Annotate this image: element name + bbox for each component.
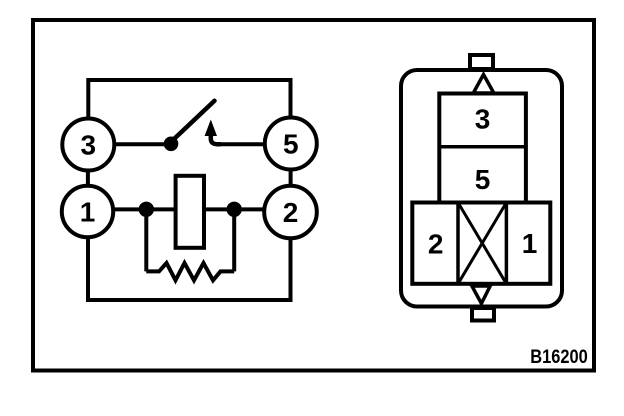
divider between cavity 3 and 5 xyxy=(439,145,526,149)
junction dot: right node on coil wire xyxy=(227,202,242,217)
terminal circle 2 xyxy=(264,186,317,239)
connector mounting tab top xyxy=(470,55,493,69)
switch blade (open contact) xyxy=(174,101,215,140)
junction dot: left node on coil wire xyxy=(139,202,154,217)
keyway left divider xyxy=(456,203,460,284)
svg-text:5: 5 xyxy=(475,164,491,195)
keyway right divider xyxy=(505,203,509,284)
wire: switch arrow to terminal 5 xyxy=(219,142,265,146)
resistor (zigzag) xyxy=(146,263,234,280)
terminal circle 3 xyxy=(62,119,114,171)
terminal circle 5 xyxy=(265,118,317,170)
junction dot: switch pivot node xyxy=(164,137,179,152)
wire: terminal 1 to terminal 2 xyxy=(113,207,265,211)
svg-text:3: 3 xyxy=(81,130,97,161)
wire: link between terminals 3 and 1 xyxy=(86,170,90,187)
pin cavity block 3/5 xyxy=(439,94,526,203)
connector body (rounded rectangle) xyxy=(401,70,562,307)
keyway X diagonal 1 xyxy=(458,203,506,284)
switch actuation arrow (stem with curve into wire) xyxy=(211,132,221,144)
svg-text:1: 1 xyxy=(522,228,538,259)
wire: terminal 3 to switch pivot xyxy=(114,142,171,146)
wire: bottom loop from terminal 1 down, across, up to terminal 2 xyxy=(88,237,291,300)
svg-text:B16200: B16200 xyxy=(530,346,588,368)
svg-text:1: 1 xyxy=(80,197,96,228)
svg-text:2: 2 xyxy=(283,197,299,228)
wire: right drop to resistor xyxy=(232,209,236,271)
svg-text:2: 2 xyxy=(428,229,444,260)
wire: left drop to resistor xyxy=(144,209,148,271)
index arrow bottom (open triangle) xyxy=(472,286,490,304)
keyway X diagonal 2 xyxy=(458,203,506,284)
connector mounting tab bottom xyxy=(472,308,494,321)
svg-text:5: 5 xyxy=(283,129,299,160)
lower cavity row (pins 2, keyway, 1) xyxy=(412,203,550,284)
index arrow top (open triangle) xyxy=(473,75,494,94)
svg-text:3: 3 xyxy=(475,104,491,135)
terminal circle 1 xyxy=(62,186,113,237)
relay coil (rectangle over the wire) xyxy=(176,176,204,248)
wire: link between terminals 5 and 2 xyxy=(289,169,293,187)
wire: top loop from terminal 3 up, across, down to terminal 5 xyxy=(88,80,290,118)
switch arrowhead xyxy=(205,120,217,137)
